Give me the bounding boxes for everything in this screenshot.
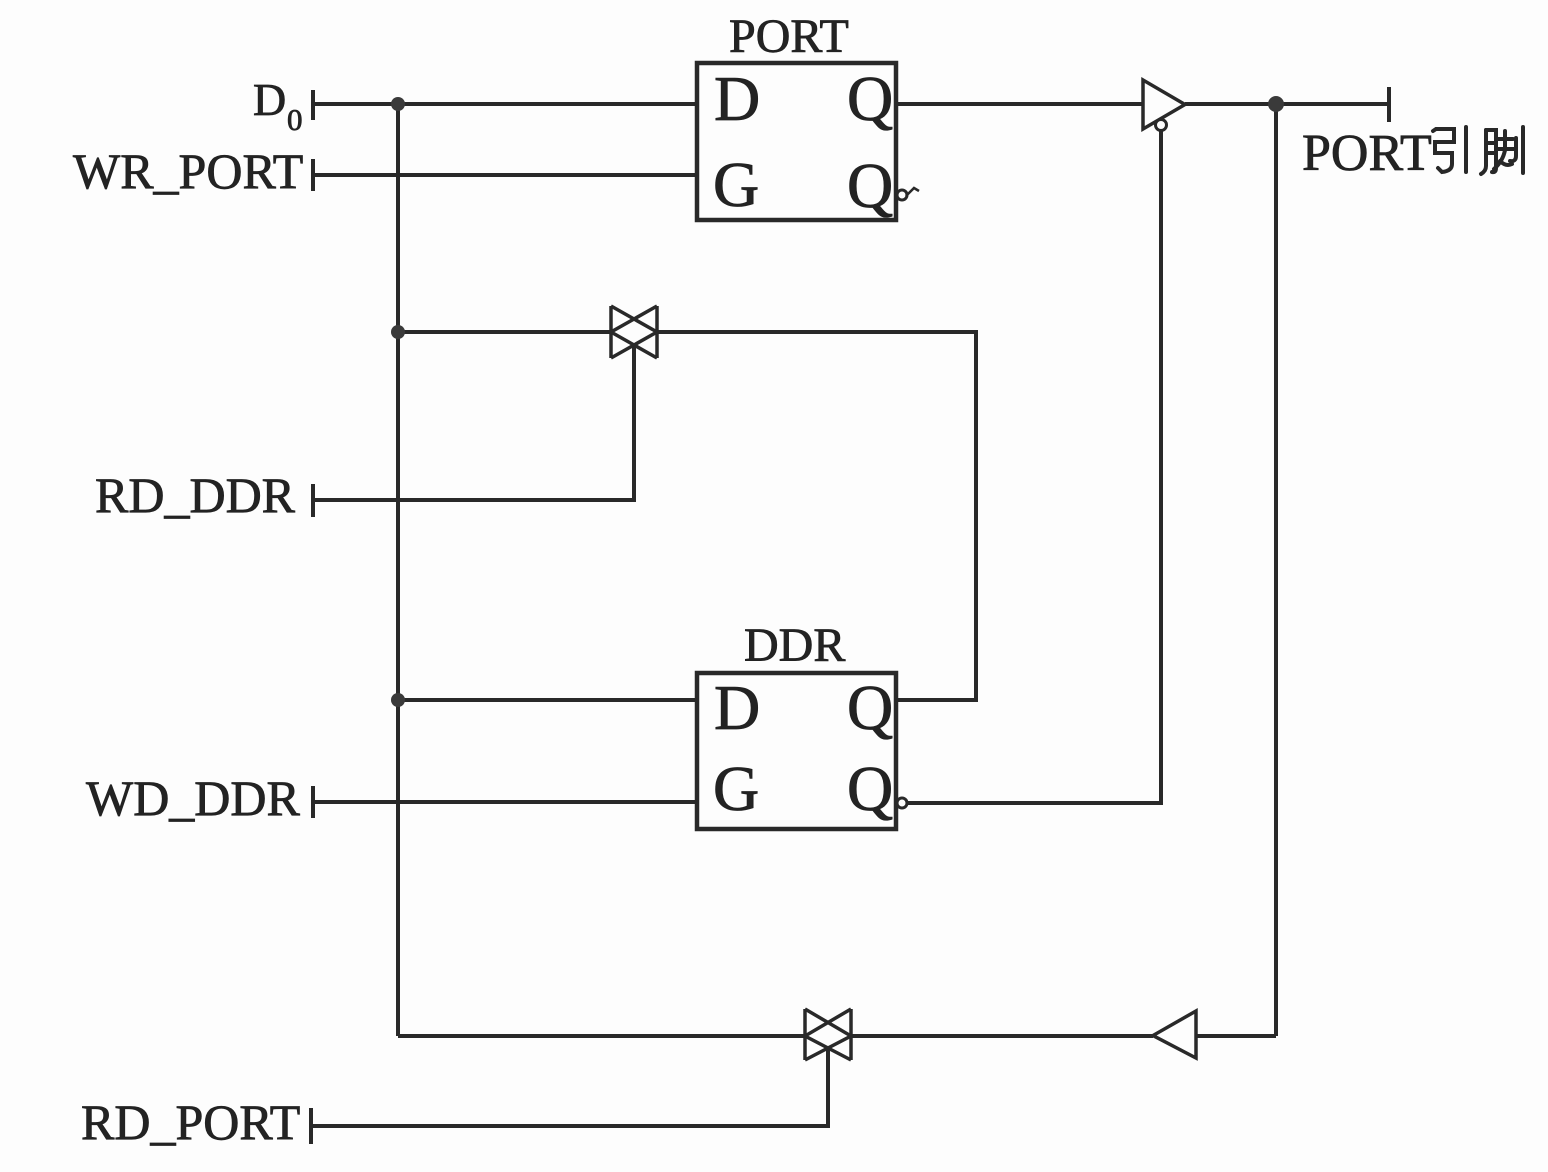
- hanzi JIAO (foot) of PORT pin label: [1481, 127, 1523, 174]
- svg-text:WD_DDR: WD_DDR: [86, 770, 301, 826]
- svg-text:Q: Q: [847, 672, 893, 743]
- svg-text:D: D: [714, 672, 760, 743]
- wire WR_PORT input: [313, 173, 697, 177]
- wire DDR notQ to U1 enable bubble: [907, 131, 1161, 803]
- wire TG1 to DDR Q: [657, 332, 976, 700]
- input tick RD_DDR: [311, 484, 315, 517]
- enable bubble U1: [1156, 120, 1167, 131]
- junction dot pin node: [1268, 96, 1284, 112]
- wire RD_PORT to TG2 control: [311, 1048, 828, 1126]
- wire bottom from bus to TG2: [398, 1034, 805, 1038]
- input tick WR_PORT: [311, 159, 315, 191]
- svg-text:RD_PORT: RD_PORT: [81, 1094, 300, 1150]
- svg-text:DDR: DDR: [744, 619, 845, 672]
- wire right vertical bus: [1274, 104, 1278, 1036]
- pin tick PORT pin: [1387, 87, 1391, 122]
- wire bus to transmission gate TG1: [398, 330, 611, 334]
- wire RD_DDR to TG1 control: [313, 344, 634, 500]
- junction dot bus/DDR D: [391, 693, 405, 707]
- svg-text:WR_PORT: WR_PORT: [73, 143, 303, 199]
- bubble DDR notQ: [897, 798, 907, 808]
- wire U1 output to port pin: [1185, 102, 1389, 106]
- latch DDR box: [697, 673, 896, 829]
- input tick WD_DDR: [311, 786, 315, 818]
- hanzi YIN (pull) of PORT pin label: [1433, 127, 1466, 172]
- transmission gate TG1: [611, 306, 657, 358]
- tristate buffer U1: [1143, 80, 1185, 129]
- wire left vertical bus: [396, 104, 400, 1036]
- svg-text:G: G: [713, 149, 759, 220]
- svg-text:PORT: PORT: [729, 10, 849, 63]
- buffer U2: [1153, 1011, 1196, 1058]
- svg-text:D: D: [253, 74, 286, 125]
- wire D0 input: [313, 102, 697, 106]
- svg-text:Q: Q: [847, 63, 893, 134]
- latch PORT box: [697, 63, 896, 220]
- input tick D0: [311, 90, 315, 120]
- transmission gate TG2: [805, 1009, 851, 1060]
- svg-text:G: G: [713, 753, 759, 824]
- svg-text:Q: Q: [847, 753, 893, 824]
- wire U2 input from right bus: [1196, 1034, 1276, 1038]
- wire WD_DDR to DDR G: [313, 800, 697, 804]
- svg-text:PORT: PORT: [1302, 125, 1432, 182]
- input tick RD_PORT: [309, 1108, 313, 1144]
- junction dot bus/TG1: [391, 325, 405, 339]
- squiggle at PORT notQ: [906, 188, 919, 196]
- bubble PORT notQ: [897, 190, 907, 200]
- wire PORT Q to tristate buffer U1: [896, 102, 1143, 106]
- svg-text:D: D: [714, 63, 760, 134]
- svg-text:0: 0: [287, 102, 303, 137]
- svg-text:Q: Q: [847, 150, 893, 221]
- junction dot D0/bus: [391, 97, 405, 111]
- wire TG2 to buffer U2: [851, 1034, 1153, 1038]
- svg-text:RD_DDR: RD_DDR: [95, 467, 296, 523]
- wire bus to DDR D: [398, 698, 697, 702]
